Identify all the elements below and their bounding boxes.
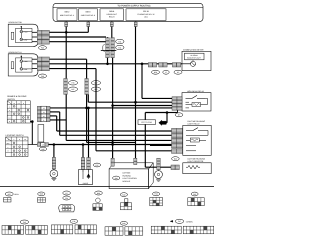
svg-text:B98: B98 [97,192,100,195]
svg-text:B46: B46 [122,193,125,196]
svg-text:B37: B37 [71,88,74,91]
svg-text:HEADLIGHT: HEADLIGHT [107,13,118,16]
svg-text:MODULE: MODULE [123,180,131,183]
svg-text:RUNNING: RUNNING [123,174,132,177]
svg-text:12: 12 [43,107,45,110]
svg-text:I5: I5 [165,71,166,74]
svg-text:F45: F45 [193,193,196,196]
svg-text:F47: F47 [178,220,181,223]
svg-text:F45: F45 [72,82,75,85]
svg-text:B46: B46 [122,222,125,225]
svg-text:F56: F56 [65,197,68,200]
svg-text:LIGHT RELAY: LIGHT RELAY [188,122,201,125]
svg-text:B46: B46 [174,158,177,161]
svg-text:HEADLIGHT RH: HEADLIGHT RH [9,21,23,24]
svg-text:HEADLIGHT LH: HEADLIGHT LH [9,51,23,54]
svg-text:DIODE: DIODE [83,182,89,185]
svg-text:I13: I13 [177,71,179,74]
svg-text:MINI FUSE NO. 4: MINI FUSE NO. 4 [60,14,74,17]
svg-text:B45: B45 [41,148,44,151]
svg-text:B38: B38 [154,71,157,74]
svg-text:DAYTIME: DAYTIME [123,172,132,175]
svg-text:RELAY: RELAY [109,16,116,19]
svg-text:DIMMER & PASSING: DIMMER & PASSING [7,95,27,98]
svg-text:COMBINATION METER: COMBINATION METER [183,48,204,51]
svg-text:: GREEN: : GREEN [185,220,193,223]
svg-text:10: 10 [43,115,45,118]
svg-text:B46: B46 [115,177,118,180]
svg-text:FUSE&FUSE NO. 16: FUSE&FUSE NO. 16 [138,13,155,16]
svg-text:B37: B37 [8,193,11,196]
svg-text:F45: F45 [118,40,121,43]
svg-text:F46: F46 [41,75,44,78]
svg-text:F46: F46 [72,220,75,223]
svg-text:F44: F44 [155,193,158,196]
svg-text:HI-BEAM: HI-BEAM [190,54,198,57]
svg-text:SWITCH: SWITCH [7,98,15,101]
svg-text:13: 13 [42,144,44,147]
svg-text:F45: F45 [41,47,44,50]
svg-text:SMB FUSE NO. 8: SMB FUSE NO. 8 [81,14,95,17]
svg-text:B7: B7 [178,114,180,117]
svg-text:FB-16: FB-16 [143,10,149,13]
svg-text:B7: B7 [66,192,68,195]
svg-text:11: 11 [43,111,45,114]
svg-text:F46: F46 [118,46,121,49]
svg-text:F45: F45 [23,221,26,224]
svg-text:FRT TO FOG: FRT TO FOG [141,121,152,124]
svg-text:B45: B45 [40,193,43,196]
svg-text:9: 9 [43,119,44,122]
svg-text:F47: F47 [96,164,99,167]
svg-text:LIGHT CONTROL: LIGHT CONTROL [123,177,138,180]
svg-text:(IG): (IG) [144,16,147,19]
svg-text:LIGHTING SWITCH: LIGHTING SWITCH [6,134,24,137]
